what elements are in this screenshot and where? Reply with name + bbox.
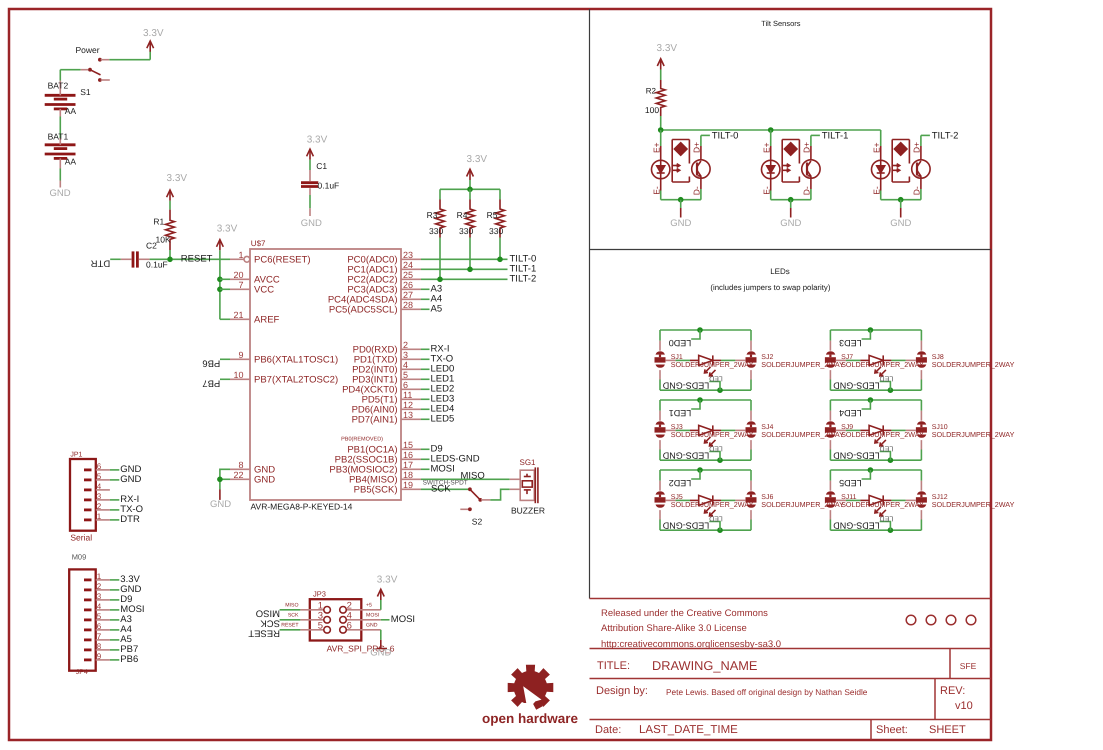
svg-text:3.3V: 3.3V xyxy=(167,173,188,184)
svg-text:LED3: LED3 xyxy=(839,338,862,348)
svg-text:LED: LED xyxy=(709,444,723,451)
svg-text:LED1: LED1 xyxy=(669,408,692,418)
svg-text:Attribution Share-Alike 3.0 Li: Attribution Share-Alike 3.0 License xyxy=(601,623,747,634)
svg-text:28: 28 xyxy=(403,300,413,310)
svg-text:1: 1 xyxy=(97,512,102,521)
svg-text:2: 2 xyxy=(97,502,102,511)
svg-text:C1: C1 xyxy=(316,161,327,171)
svg-text:LEDS-GND: LEDS-GND xyxy=(833,521,880,531)
svg-text:LEDS-GND: LEDS-GND xyxy=(662,381,709,391)
svg-text:10K: 10K xyxy=(156,235,171,245)
svg-text:SG1: SG1 xyxy=(520,458,537,467)
svg-text:Power: Power xyxy=(76,45,100,55)
svg-text:3: 3 xyxy=(97,592,102,601)
svg-text:SFE: SFE xyxy=(960,661,977,671)
svg-text:DTR: DTR xyxy=(91,257,111,268)
svg-text:PD7(AIN1): PD7(AIN1) xyxy=(352,415,398,426)
svg-text:TILT-2: TILT-2 xyxy=(932,131,959,142)
svg-text:M09: M09 xyxy=(72,553,87,562)
svg-text:3.3V: 3.3V xyxy=(217,224,238,235)
svg-text:+5: +5 xyxy=(366,603,372,609)
svg-text:LEDS-GND: LEDS-GND xyxy=(662,521,709,531)
svg-text:Released under the Creative Co: Released under the Creative Commons xyxy=(601,608,768,619)
svg-text:3.3V: 3.3V xyxy=(143,28,164,39)
svg-text:LED0: LED0 xyxy=(669,338,692,348)
svg-text:4: 4 xyxy=(97,482,102,491)
svg-text:330: 330 xyxy=(459,226,473,236)
svg-text:6: 6 xyxy=(403,380,408,390)
svg-text:SWITCH-SPDT: SWITCH-SPDT xyxy=(423,480,468,487)
svg-text:DTR: DTR xyxy=(120,514,140,525)
svg-text:GND: GND xyxy=(366,623,378,629)
svg-text:2: 2 xyxy=(403,340,408,350)
svg-text:GND: GND xyxy=(890,218,911,229)
svg-text:JP1: JP1 xyxy=(70,452,82,459)
svg-text:21: 21 xyxy=(233,310,243,320)
svg-text:LEDS-GND: LEDS-GND xyxy=(833,451,880,461)
svg-text:LED5: LED5 xyxy=(431,413,455,424)
svg-text:C2: C2 xyxy=(146,241,157,251)
svg-text:3.3V: 3.3V xyxy=(467,154,488,165)
svg-text:DRAWING_NAME: DRAWING_NAME xyxy=(652,658,757,673)
svg-text:25: 25 xyxy=(403,270,413,280)
svg-text:D+: D+ xyxy=(802,142,812,153)
svg-text:S2: S2 xyxy=(472,517,483,527)
svg-text:PB0(REMOVED): PB0(REMOVED) xyxy=(341,436,383,442)
svg-text:9: 9 xyxy=(238,350,243,360)
svg-text:(includes jumpers to swap pola: (includes jumpers to swap polarity) xyxy=(710,283,830,292)
svg-text:LED: LED xyxy=(709,374,723,381)
svg-text:4: 4 xyxy=(403,360,408,370)
svg-text:BUZZER: BUZZER xyxy=(511,506,545,516)
svg-text:8: 8 xyxy=(97,642,102,651)
svg-text:SOLDERJUMPER_2WAY: SOLDERJUMPER_2WAY xyxy=(932,500,1015,509)
svg-text:330: 330 xyxy=(489,226,503,236)
svg-text:REV:: REV: xyxy=(940,685,965,697)
svg-text:LEDs: LEDs xyxy=(770,267,790,276)
svg-text:TILT-2: TILT-2 xyxy=(510,273,537,284)
svg-text:16: 16 xyxy=(403,450,413,460)
svg-text:0.1uF: 0.1uF xyxy=(146,260,168,270)
svg-text:17: 17 xyxy=(403,460,413,470)
svg-text:23: 23 xyxy=(403,250,413,260)
svg-text:Sheet:: Sheet: xyxy=(876,724,908,736)
svg-text:AREF: AREF xyxy=(254,315,280,326)
svg-text:D-: D- xyxy=(912,186,922,195)
svg-text:A5: A5 xyxy=(431,303,443,314)
svg-text:S1: S1 xyxy=(80,87,91,97)
svg-text:10: 10 xyxy=(233,370,243,380)
svg-text:LAST_DATE_TIME: LAST_DATE_TIME xyxy=(639,724,738,736)
svg-text:LED2: LED2 xyxy=(669,478,692,488)
svg-text:100: 100 xyxy=(645,105,659,115)
svg-text:LEDS-GND: LEDS-GND xyxy=(833,381,880,391)
svg-text:E+: E+ xyxy=(762,142,772,153)
svg-text:E+: E+ xyxy=(652,142,662,153)
svg-text:TILT-0: TILT-0 xyxy=(712,131,739,142)
svg-text:http:creativecommons.orglicens: http:creativecommons.orglicensesby-sa3.0 xyxy=(601,639,781,650)
svg-text:D+: D+ xyxy=(692,142,702,153)
svg-text:GND: GND xyxy=(210,499,231,510)
svg-text:3: 3 xyxy=(97,492,102,501)
svg-text:5: 5 xyxy=(97,612,102,621)
svg-text:JP4: JP4 xyxy=(76,669,88,676)
svg-text:0.1uF: 0.1uF xyxy=(318,180,340,190)
svg-text:PB6: PB6 xyxy=(202,357,220,368)
svg-text:R2: R2 xyxy=(646,87,657,96)
svg-text:MISO: MISO xyxy=(256,608,280,619)
svg-text:20: 20 xyxy=(233,270,243,280)
svg-text:Tilt Sensors: Tilt Sensors xyxy=(761,19,801,28)
svg-text:11: 11 xyxy=(403,390,412,400)
svg-text:LED: LED xyxy=(709,514,723,521)
svg-text:BAT1: BAT1 xyxy=(48,131,69,141)
svg-text:PC5(ADC5SCL): PC5(ADC5SCL) xyxy=(329,305,398,316)
svg-text:open hardware: open hardware xyxy=(482,711,579,726)
svg-text:26: 26 xyxy=(403,280,413,290)
svg-text:LED: LED xyxy=(880,514,894,521)
svg-text:PB7: PB7 xyxy=(202,377,220,388)
svg-text:330: 330 xyxy=(429,226,443,236)
svg-text:7: 7 xyxy=(97,632,102,641)
svg-text:5: 5 xyxy=(403,370,408,380)
svg-text:R4: R4 xyxy=(457,210,468,220)
svg-text:5: 5 xyxy=(97,472,102,481)
svg-text:15: 15 xyxy=(403,440,413,450)
svg-text:GND: GND xyxy=(120,474,141,485)
svg-text:PC6(RESET): PC6(RESET) xyxy=(254,255,310,266)
svg-text:PB5(SCK): PB5(SCK) xyxy=(354,485,398,496)
svg-text:MOSI: MOSI xyxy=(366,613,379,619)
svg-text:SOLDERJUMPER_2WAY: SOLDERJUMPER_2WAY xyxy=(932,430,1015,439)
svg-text:5: 5 xyxy=(318,620,323,631)
svg-text:TITLE:: TITLE: xyxy=(597,660,630,672)
svg-text:TILT-1: TILT-1 xyxy=(822,131,849,142)
svg-text:24: 24 xyxy=(403,260,413,270)
svg-text:PB7(XTAL2TOSC2): PB7(XTAL2TOSC2) xyxy=(254,375,338,386)
svg-text:R5: R5 xyxy=(487,210,498,220)
svg-text:AVR-MEGA8-P-KEYED-14: AVR-MEGA8-P-KEYED-14 xyxy=(251,502,353,512)
svg-text:Pete Lewis. Based off original: Pete Lewis. Based off original design by… xyxy=(666,687,868,697)
svg-text:SHEET: SHEET xyxy=(929,724,966,736)
svg-text:PB6(XTAL1TOSC1): PB6(XTAL1TOSC1) xyxy=(254,355,338,366)
svg-text:4: 4 xyxy=(97,602,102,611)
svg-text:8: 8 xyxy=(238,460,243,470)
svg-text:GND: GND xyxy=(370,648,391,659)
svg-text:R1: R1 xyxy=(153,216,164,226)
svg-text:RESET: RESET xyxy=(181,253,213,264)
svg-text:GND: GND xyxy=(50,188,71,199)
svg-text:LED4: LED4 xyxy=(839,408,862,418)
svg-text:6: 6 xyxy=(347,620,352,631)
svg-text:22: 22 xyxy=(233,470,243,480)
svg-text:19: 19 xyxy=(403,480,413,490)
svg-text:U$7: U$7 xyxy=(251,239,266,248)
svg-text:LED5: LED5 xyxy=(839,478,862,488)
svg-text:E+: E+ xyxy=(872,142,882,153)
svg-text:RESET: RESET xyxy=(248,628,280,639)
svg-text:AA: AA xyxy=(65,157,77,167)
svg-text:SCK: SCK xyxy=(260,618,280,629)
svg-text:6: 6 xyxy=(97,462,102,471)
svg-text:Serial: Serial xyxy=(70,533,92,543)
svg-text:BAT2: BAT2 xyxy=(48,81,69,91)
svg-text:AA: AA xyxy=(65,106,77,116)
svg-text:MOSI: MOSI xyxy=(391,614,415,625)
svg-text:3.3V: 3.3V xyxy=(377,575,398,586)
svg-text:D-: D- xyxy=(692,186,702,195)
svg-text:LED: LED xyxy=(880,444,894,451)
svg-text:RESET: RESET xyxy=(281,623,299,629)
svg-text:JP3: JP3 xyxy=(313,590,326,599)
svg-text:1: 1 xyxy=(238,250,243,260)
svg-text:13: 13 xyxy=(403,410,413,420)
svg-text:D-: D- xyxy=(802,186,812,195)
svg-text:PB6: PB6 xyxy=(120,654,138,665)
svg-text:Design by:: Design by: xyxy=(596,685,648,697)
svg-text:18: 18 xyxy=(403,470,413,480)
svg-text:MISO: MISO xyxy=(285,603,298,609)
svg-text:GND: GND xyxy=(670,218,691,229)
svg-text:D+: D+ xyxy=(912,142,922,153)
svg-text:GND: GND xyxy=(254,475,275,486)
svg-text:Date:: Date: xyxy=(595,724,621,736)
svg-text:MOSI: MOSI xyxy=(431,463,455,474)
svg-text:GND: GND xyxy=(301,218,322,229)
svg-text:LED: LED xyxy=(880,374,894,381)
svg-text:GND: GND xyxy=(780,218,801,229)
svg-text:7: 7 xyxy=(238,280,243,290)
svg-text:v10: v10 xyxy=(955,700,973,712)
svg-text:SCK: SCK xyxy=(288,613,299,619)
svg-text:3.3V: 3.3V xyxy=(307,135,328,146)
svg-text:1: 1 xyxy=(97,572,102,581)
svg-text:3.3V: 3.3V xyxy=(657,43,678,54)
svg-text:R3: R3 xyxy=(427,210,438,220)
svg-text:6: 6 xyxy=(97,622,102,631)
svg-text:SOLDERJUMPER_2WAY: SOLDERJUMPER_2WAY xyxy=(932,360,1015,369)
svg-text:3: 3 xyxy=(403,350,408,360)
svg-text:12: 12 xyxy=(403,400,413,410)
svg-text:LEDS-GND: LEDS-GND xyxy=(662,451,709,461)
svg-text:9: 9 xyxy=(97,652,102,661)
svg-text:VCC: VCC xyxy=(254,285,274,296)
svg-text:2: 2 xyxy=(97,582,102,591)
svg-text:27: 27 xyxy=(403,290,413,300)
